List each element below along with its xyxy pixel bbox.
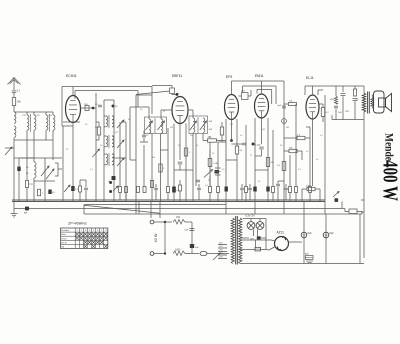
svg-text:A.T.B: A.T.B [61,241,67,244]
svg-text:ZF=468kHz: ZF=468kHz [67,222,87,226]
svg-text:1M: 1M [152,157,155,159]
svg-text:2M: 2M [190,135,193,137]
svg-text:400 W: 400 W [379,160,400,201]
svg-text:4MF: 4MF [330,99,335,101]
svg-text:EM11: EM11 [255,74,264,78]
svg-text:0,1µF: 0,1µF [255,145,261,147]
svg-text:4M: 4M [286,127,289,129]
svg-text:1000: 1000 [175,249,181,252]
svg-text:Schalter: Schalter [61,229,69,232]
svg-text:EF9: EF9 [226,75,232,79]
svg-text:8µF: 8µF [278,105,282,107]
svg-text:6,3v CM: 6,3v CM [246,215,255,218]
svg-text:ant: ant [24,211,28,214]
svg-text:2MF: 2MF [345,111,350,113]
svg-text:Mende: Mende [382,133,395,161]
svg-text:1M: 1M [170,127,173,129]
svg-text:EL11: EL11 [306,76,314,80]
svg-text:8µF: 8µF [308,232,313,235]
svg-text:1µF: 1µF [338,112,342,114]
svg-text:40 W: 40 W [154,233,158,242]
svg-text:R.Vor: R.Vor [61,237,67,240]
svg-text:100: 100 [176,216,181,219]
svg-text:Rern: Rern [61,233,67,236]
svg-text:AxU: AxU [305,253,310,256]
svg-text:8µF: 8µF [330,232,335,235]
svg-text:5µF: 5µF [195,247,199,249]
svg-text:EBF11: EBF11 [172,74,182,78]
svg-text:1M: 1M [262,129,265,131]
svg-text:ECH11: ECH11 [66,74,77,78]
svg-text:5µF: 5µF [185,230,189,232]
svg-text:AZ11: AZ11 [277,231,285,235]
